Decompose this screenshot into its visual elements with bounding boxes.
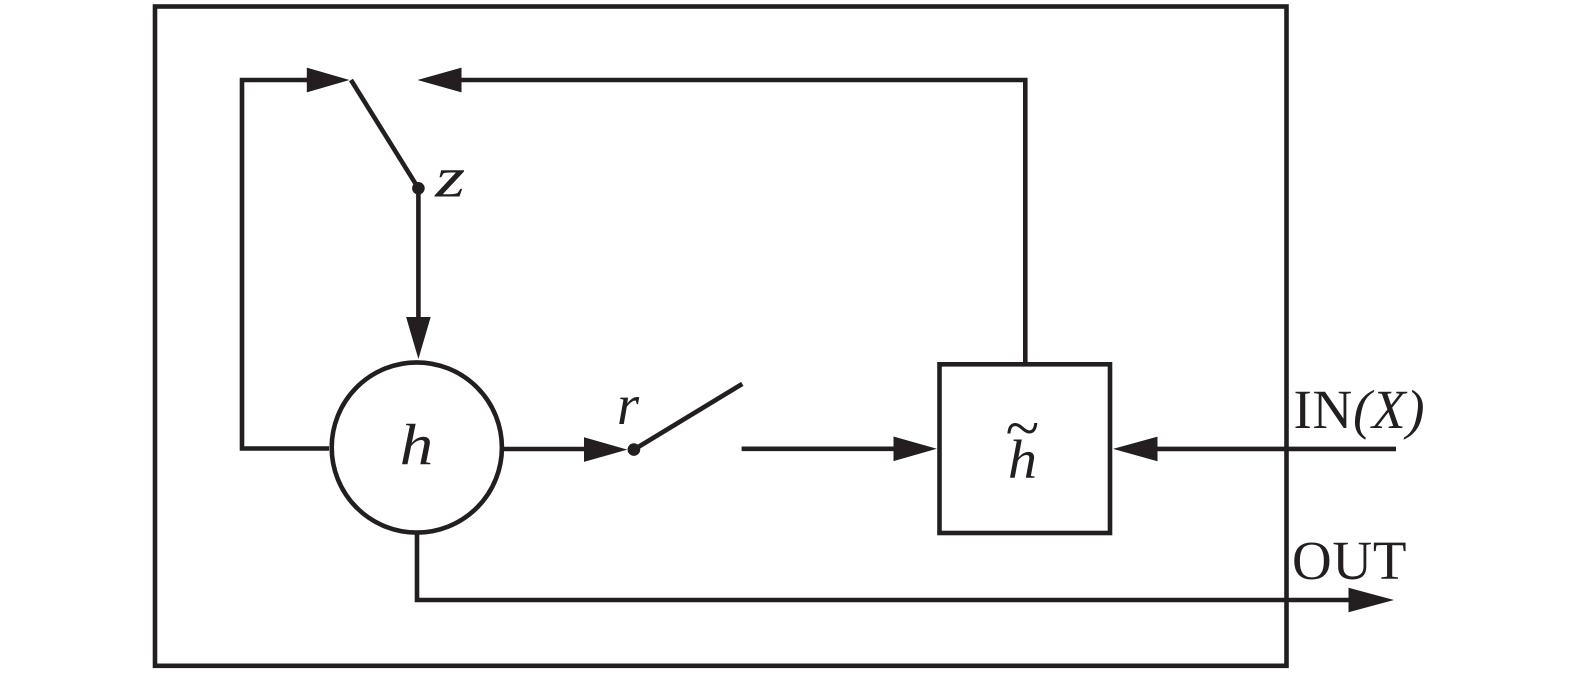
svg-text:z: z <box>434 146 465 209</box>
svg-text:h: h <box>400 412 434 477</box>
svg-text:IN(X): IN(X) <box>1294 379 1426 440</box>
svg-text:~: ~ <box>1006 395 1040 463</box>
svg-text:OUT: OUT <box>1292 530 1407 591</box>
svg-text:r: r <box>617 374 640 437</box>
